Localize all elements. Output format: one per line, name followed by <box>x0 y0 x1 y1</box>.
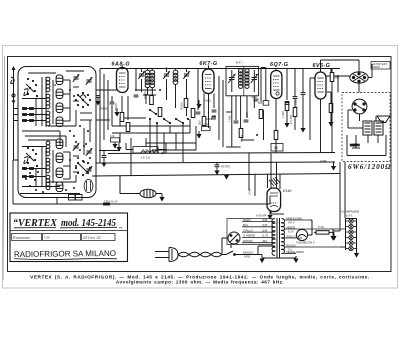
svg-text:0,5 MΩ: 0,5 MΩ <box>289 115 293 124</box>
coil L6 unit <box>56 103 63 113</box>
capacitor C9 filter <box>214 163 230 176</box>
resistor R6 <box>285 102 289 111</box>
nameplate title underline <box>14 226 117 229</box>
trimmer CT6 <box>183 71 189 79</box>
capacitor C14 with ground <box>99 151 120 168</box>
svg-text:0,1 MF: 0,1 MF <box>202 123 210 127</box>
svg-text:ROSSO: ROSSO <box>286 243 296 247</box>
svg-text:/1.75: /1.75 <box>262 234 268 238</box>
coil L15 <box>173 70 178 84</box>
svg-text:/125: /125 <box>262 223 268 227</box>
nameplate cell 3 <box>82 234 116 241</box>
loudspeaker unit dashed box <box>342 93 390 162</box>
resistor R13 <box>239 129 243 138</box>
svg-text:Esaminato: Esaminato <box>12 235 30 240</box>
wire right risers <box>332 69 345 232</box>
coil L16 unit <box>56 182 63 192</box>
capacitor C2 <box>134 95 139 97</box>
tube U3 6Q7-G <box>271 71 282 99</box>
svg-text:43: 43 <box>274 146 278 150</box>
switch S2a contacts <box>27 147 38 167</box>
lamp 3 <box>346 230 357 234</box>
speaker cone <box>377 116 390 123</box>
switch S1b rotary contacts <box>75 92 91 108</box>
mains switch <box>222 245 258 256</box>
coil L3 chain <box>46 111 50 126</box>
switch S1b wiper arm <box>78 95 88 105</box>
nameplate box <box>10 213 128 262</box>
resistor R9 box value <box>271 144 283 152</box>
nameplate maker underline <box>14 259 117 260</box>
ground 6K7 <box>196 104 201 109</box>
svg-text:1 MΩ: 1 MΩ <box>228 116 232 122</box>
switch S3 wires <box>112 110 196 162</box>
ground 6V6 grid return <box>300 125 305 133</box>
lamp 5 <box>346 241 357 245</box>
coil L11 unit <box>56 153 63 163</box>
svg-text:C.V.: C.V. <box>142 149 148 153</box>
lamp 2 <box>346 224 357 228</box>
svg-text:FILTRO: FILTRO <box>221 165 230 169</box>
coil L10 unit <box>56 139 63 149</box>
wire bottom rail <box>13 203 270 205</box>
lamp strip label <box>341 210 359 218</box>
capacitor C11 <box>234 121 239 123</box>
svg-text:347 V: 347 V <box>288 222 295 225</box>
resistor R4 <box>126 123 130 132</box>
coil L1 chain <box>46 77 50 92</box>
wire 6K7 cathode circuit <box>198 69 223 129</box>
svg-text:1 MΩ: 1 MΩ <box>281 111 285 118</box>
coil L2 chain <box>46 94 50 109</box>
ground R16 <box>196 131 201 139</box>
capacitor C15 with ground <box>95 96 100 106</box>
wires left coil section <box>22 71 84 126</box>
coil L5 unit <box>56 89 63 99</box>
svg-text:ALTOP. EST.: ALTOP. EST. <box>373 62 388 66</box>
dial scale box <box>133 147 158 154</box>
resistor R7 <box>293 108 297 117</box>
wire mains to primary <box>258 246 296 258</box>
node junction dots mid <box>121 68 168 97</box>
ground left of lamps <box>332 229 334 231</box>
lamp 4 <box>346 235 357 239</box>
trimmer CT7 <box>86 148 92 156</box>
speaker socket <box>352 99 367 114</box>
coil L8 chain <box>46 141 50 156</box>
wire vertical x131 <box>130 138 132 176</box>
contact dots extra <box>23 89 91 193</box>
ground arrow column <box>116 143 121 152</box>
svg-text:RADIOFRIGOR SA MILANO: RADIOFRIGOR SA MILANO <box>14 249 116 259</box>
resistor R14 <box>258 101 269 106</box>
svg-text:5000: 5000 <box>206 117 212 121</box>
wires oscillator section <box>136 69 187 117</box>
mains cord twisted pair <box>178 252 222 257</box>
wire tap GIALLO <box>242 228 275 232</box>
wire B+ top rail <box>100 68 340 70</box>
ground bus end <box>331 162 336 171</box>
tube U1 6A8-G <box>117 65 129 93</box>
oscillator coil L13 <box>145 70 155 88</box>
resistor R12 <box>191 109 195 118</box>
svg-text:NERO: NERO <box>243 218 251 222</box>
svg-text:6,3 V: 6,3 V <box>346 214 352 218</box>
wire bus 3 <box>92 174 340 177</box>
IF transformer MF1 divider <box>243 66 245 95</box>
antenna <box>11 66 16 160</box>
svg-text:/105: /105 <box>262 218 268 222</box>
resistor R15 box <box>110 134 120 149</box>
svg-text:ROSSO: ROSSO <box>243 239 253 243</box>
wire secondary VERDE NERO <box>284 250 304 254</box>
svg-text:BIANCO: BIANCO <box>243 251 253 255</box>
wire secondary ROSSO 5V <box>284 243 340 251</box>
capacitor C5 <box>293 97 298 99</box>
wire left riser group <box>96 69 117 164</box>
ground rectifier <box>267 212 272 220</box>
coil L12 unit <box>56 168 63 178</box>
svg-text:6A8-G: 6A8-G <box>112 62 131 68</box>
wire secondary GIALLO <box>284 234 302 238</box>
svg-text:L.F. 1,8: L.F. 1,8 <box>141 156 150 160</box>
switch S3 contacts <box>149 109 189 124</box>
wire lamp strip feed <box>340 229 346 247</box>
wire bus 2 <box>100 162 335 163</box>
IF transformer MF1 secondary <box>245 69 249 89</box>
trimmer CT3 <box>73 143 79 151</box>
resistor R2 <box>158 108 162 117</box>
ballast lamp dial <box>84 179 93 192</box>
resistor R11 <box>184 99 188 108</box>
power transformer T4 primary winding <box>272 219 275 256</box>
field coil winding <box>347 135 386 156</box>
wire tap NERO <box>242 218 275 222</box>
coil L7 unit <box>56 117 63 127</box>
tube U2 6K7-G <box>203 66 215 94</box>
capacitor bank upper row symbols <box>22 108 34 122</box>
svg-text:VOLUME 234 V: VOLUME 234 V <box>296 241 315 245</box>
filter choke on bus <box>141 151 164 160</box>
svg-text:VERDE-NERO: VERDE-NERO <box>286 250 304 254</box>
capacitor C12 <box>244 120 249 122</box>
lamp strip rails <box>346 219 357 253</box>
switch S2b wiper arm <box>78 163 88 173</box>
resistor R10 screen <box>330 73 339 82</box>
wave-band switch coil box <box>18 67 96 198</box>
ground tap on bus 3 <box>224 175 229 180</box>
capacitor C16 <box>211 117 216 119</box>
terminal label ALTOP box <box>371 62 390 70</box>
capacitor C1 <box>110 102 115 104</box>
tube U4 6V6-G <box>315 72 326 99</box>
svg-text:50000: 50000 <box>100 107 108 111</box>
box bottom terminal tabs <box>69 195 83 201</box>
switch S2a wiper <box>24 153 34 164</box>
svg-text:GIALLO: GIALLO <box>286 234 296 238</box>
wire IF connections <box>226 68 266 148</box>
resistor R5 <box>202 117 206 126</box>
fuse F1 <box>314 225 334 236</box>
lamp 1 <box>346 219 357 223</box>
capacitor bank lower row symbols <box>22 168 34 178</box>
switch S1a wiper <box>24 84 34 96</box>
ground mains left <box>259 259 264 264</box>
trimmer CT4 <box>138 71 144 79</box>
capacitor bank antenna coupling <box>14 109 19 161</box>
power transformer T4 secondary winding <box>282 219 285 254</box>
ground mains right <box>293 259 298 264</box>
wire rectifier filament <box>271 212 284 215</box>
svg-text:6,3 V: 6,3 V <box>288 231 294 234</box>
output transformer T3 <box>363 121 383 135</box>
rail resistor bead <box>103 203 110 206</box>
wire speaker plug leads <box>321 60 373 93</box>
wire rail risers <box>13 160 270 204</box>
svg-text:GIALLO: GIALLO <box>243 228 253 232</box>
ground lamp strip <box>354 251 359 258</box>
svg-text:50000: 50000 <box>373 65 381 69</box>
svg-text:100: 100 <box>110 134 115 138</box>
svg-text:100: 100 <box>245 112 249 117</box>
rectifier tube U5 <box>267 188 281 212</box>
capacitor C6 <box>301 93 306 95</box>
svg-text:6V6-G: 6V6-G <box>313 63 331 69</box>
svg-text:2 MF: 2 MF <box>248 188 252 195</box>
junction dot x257 <box>256 134 258 136</box>
pilot circle meter <box>296 220 312 241</box>
wire secondary ARANCIONE <box>284 216 310 224</box>
wire tap ROSSO <box>242 239 275 243</box>
trimmer CT1 <box>73 74 79 82</box>
wire speaker internal <box>348 110 376 128</box>
svg-text:CAMPO: CAMPO <box>350 143 360 147</box>
svg-text:VERDE: VERDE <box>286 225 295 229</box>
capacitor C7 <box>285 103 290 105</box>
speaker plug P1 <box>350 72 368 83</box>
ground 6A8 cathode <box>114 108 119 117</box>
resistor R9 <box>274 131 278 140</box>
IF transformer MF1 box <box>226 66 259 95</box>
rectifier anode hatching <box>269 177 280 186</box>
capacitor C3 <box>212 110 217 112</box>
resistor R8 cathode 6V6 <box>329 104 333 113</box>
wires coil box verticals <box>22 77 92 186</box>
coil L9 chain <box>46 158 50 173</box>
wires lower coil section <box>20 140 80 194</box>
resistor R17 <box>259 110 263 119</box>
ground riser left lamps <box>330 231 340 241</box>
nameplate divider <box>10 230 128 232</box>
svg-text:50000: 50000 <box>240 134 244 142</box>
ground 6Q7 grid return <box>284 111 289 128</box>
mains plug <box>155 248 178 262</box>
wire 6Q7 plate coupling <box>276 69 331 153</box>
wire 6A8 cathode <box>112 96 128 126</box>
IF transformer MF1 primary <box>239 69 243 89</box>
IF transformer MF1 trimmer right <box>251 70 258 92</box>
capacitor C4 <box>196 112 201 114</box>
nameplate title VERTEX mod 145-2145 <box>13 217 123 230</box>
IF transformer MF1 trimmer left <box>228 70 235 92</box>
svg-text:GRIG.: GRIG. <box>244 256 251 259</box>
wire box to bus stubs <box>92 133 166 176</box>
resistor R16 <box>202 123 211 131</box>
trimmer CT2 <box>86 77 92 85</box>
svg-text:300Ω: 300Ω <box>205 99 211 103</box>
switch S2b rotary contacts <box>75 160 91 176</box>
svg-text:M.F. I: M.F. I <box>236 61 243 65</box>
capacitor C17 stack <box>251 95 258 101</box>
svg-text:„: „ <box>119 222 123 230</box>
resistor R3 <box>120 113 124 122</box>
label BIANCO <box>243 251 253 259</box>
wire secondary VERDE <box>284 225 345 233</box>
wire tap BLU <box>242 223 275 227</box>
svg-text:500: 500 <box>335 76 340 80</box>
power transformer T4 core <box>277 218 280 258</box>
resistor R1 <box>150 96 154 105</box>
svg-text:Avvolgimento campo: 1300 ohm.: Avvolgimento campo: 1300 ohm. — Media fr… <box>116 280 284 285</box>
svg-text:A 50 MF: A 50 MF <box>255 214 267 218</box>
wire tap GIALLO VERDE <box>242 234 275 238</box>
dial pilot lamp <box>120 176 162 198</box>
decorative scan edges <box>2 46 398 289</box>
svg-text:6W6/1200Ω: 6W6/1200Ω <box>348 163 391 171</box>
svg-text:3000: 3000 <box>251 95 257 99</box>
coil L4 unit <box>56 75 63 85</box>
nameplate cell 2 <box>43 234 81 241</box>
svg-text:BLU: BLU <box>243 223 248 227</box>
svg-text:0,1 MF: 0,1 MF <box>294 99 298 108</box>
svg-text:4 MF: 4 MF <box>320 159 327 163</box>
svg-text:6 LAMPADINE: 6 LAMPADINE <box>341 210 359 214</box>
voltage selector <box>222 232 240 254</box>
svg-text:/110: /110 <box>262 239 268 243</box>
svg-text:500: 500 <box>258 101 263 105</box>
primary tap box <box>227 219 272 245</box>
svg-text:E146: E146 <box>283 189 291 193</box>
svg-text:i.av.: i.av. <box>44 236 50 240</box>
wire bus 1 <box>108 153 335 154</box>
wire rectifier risers <box>249 153 280 196</box>
svg-text:50000: 50000 <box>180 102 184 110</box>
coil L17 chain <box>46 175 50 190</box>
nameplate cell 1 <box>12 234 42 241</box>
switch S1a contacts <box>27 78 38 97</box>
svg-text:ARANCIONE: ARANCIONE <box>286 216 302 220</box>
trimmer CT5 <box>163 71 169 79</box>
svg-text:24 Gen. 42: 24 Gen. 42 <box>83 235 101 240</box>
svg-text:/145: /145 <box>262 228 268 232</box>
ground 6V6 cathode <box>328 113 333 127</box>
lamp 6 <box>346 246 357 250</box>
svg-text:6Q7-G: 6Q7-G <box>270 62 289 68</box>
mid band extra components <box>199 100 223 147</box>
trimmer CT8 <box>86 166 92 174</box>
ground pilot lamp <box>159 194 164 202</box>
svg-text:G.VERDE: G.VERDE <box>243 234 255 238</box>
svg-text:F 3A: F 3A <box>318 225 324 229</box>
ground fuse <box>331 236 336 241</box>
